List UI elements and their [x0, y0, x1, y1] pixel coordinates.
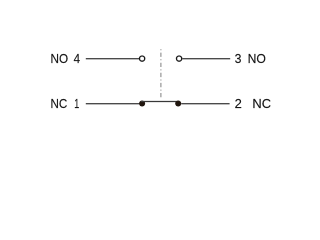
contact dot: NC right (closed contact) — [175, 100, 181, 106]
svg-text:4: 4 — [74, 52, 80, 66]
wire: NO terminal 3 lead — [182, 58, 230, 60]
svg-text:3: 3 — [235, 52, 242, 66]
svg-text:2: 2 — [235, 97, 242, 111]
svg-text:NO: NO — [248, 52, 266, 66]
contact circle: NO left (open contact) — [140, 56, 145, 61]
wire: NC terminal 1 lead — [86, 103, 140, 105]
wire: NC terminal 2 lead — [181, 103, 229, 105]
bridge bar (closed NC contact) — [141, 101, 179, 103]
wire: NO terminal 4 lead — [86, 58, 140, 60]
contact dot: NC left (closed contact) — [139, 100, 145, 106]
svg-text:NC: NC — [51, 97, 68, 111]
svg-text:NO: NO — [51, 52, 69, 66]
contact circle: NO right (open contact) — [177, 56, 182, 61]
svg-text:NC: NC — [252, 97, 271, 111]
svg-text:1: 1 — [74, 97, 79, 111]
actuator dashed link — [160, 49, 162, 97]
